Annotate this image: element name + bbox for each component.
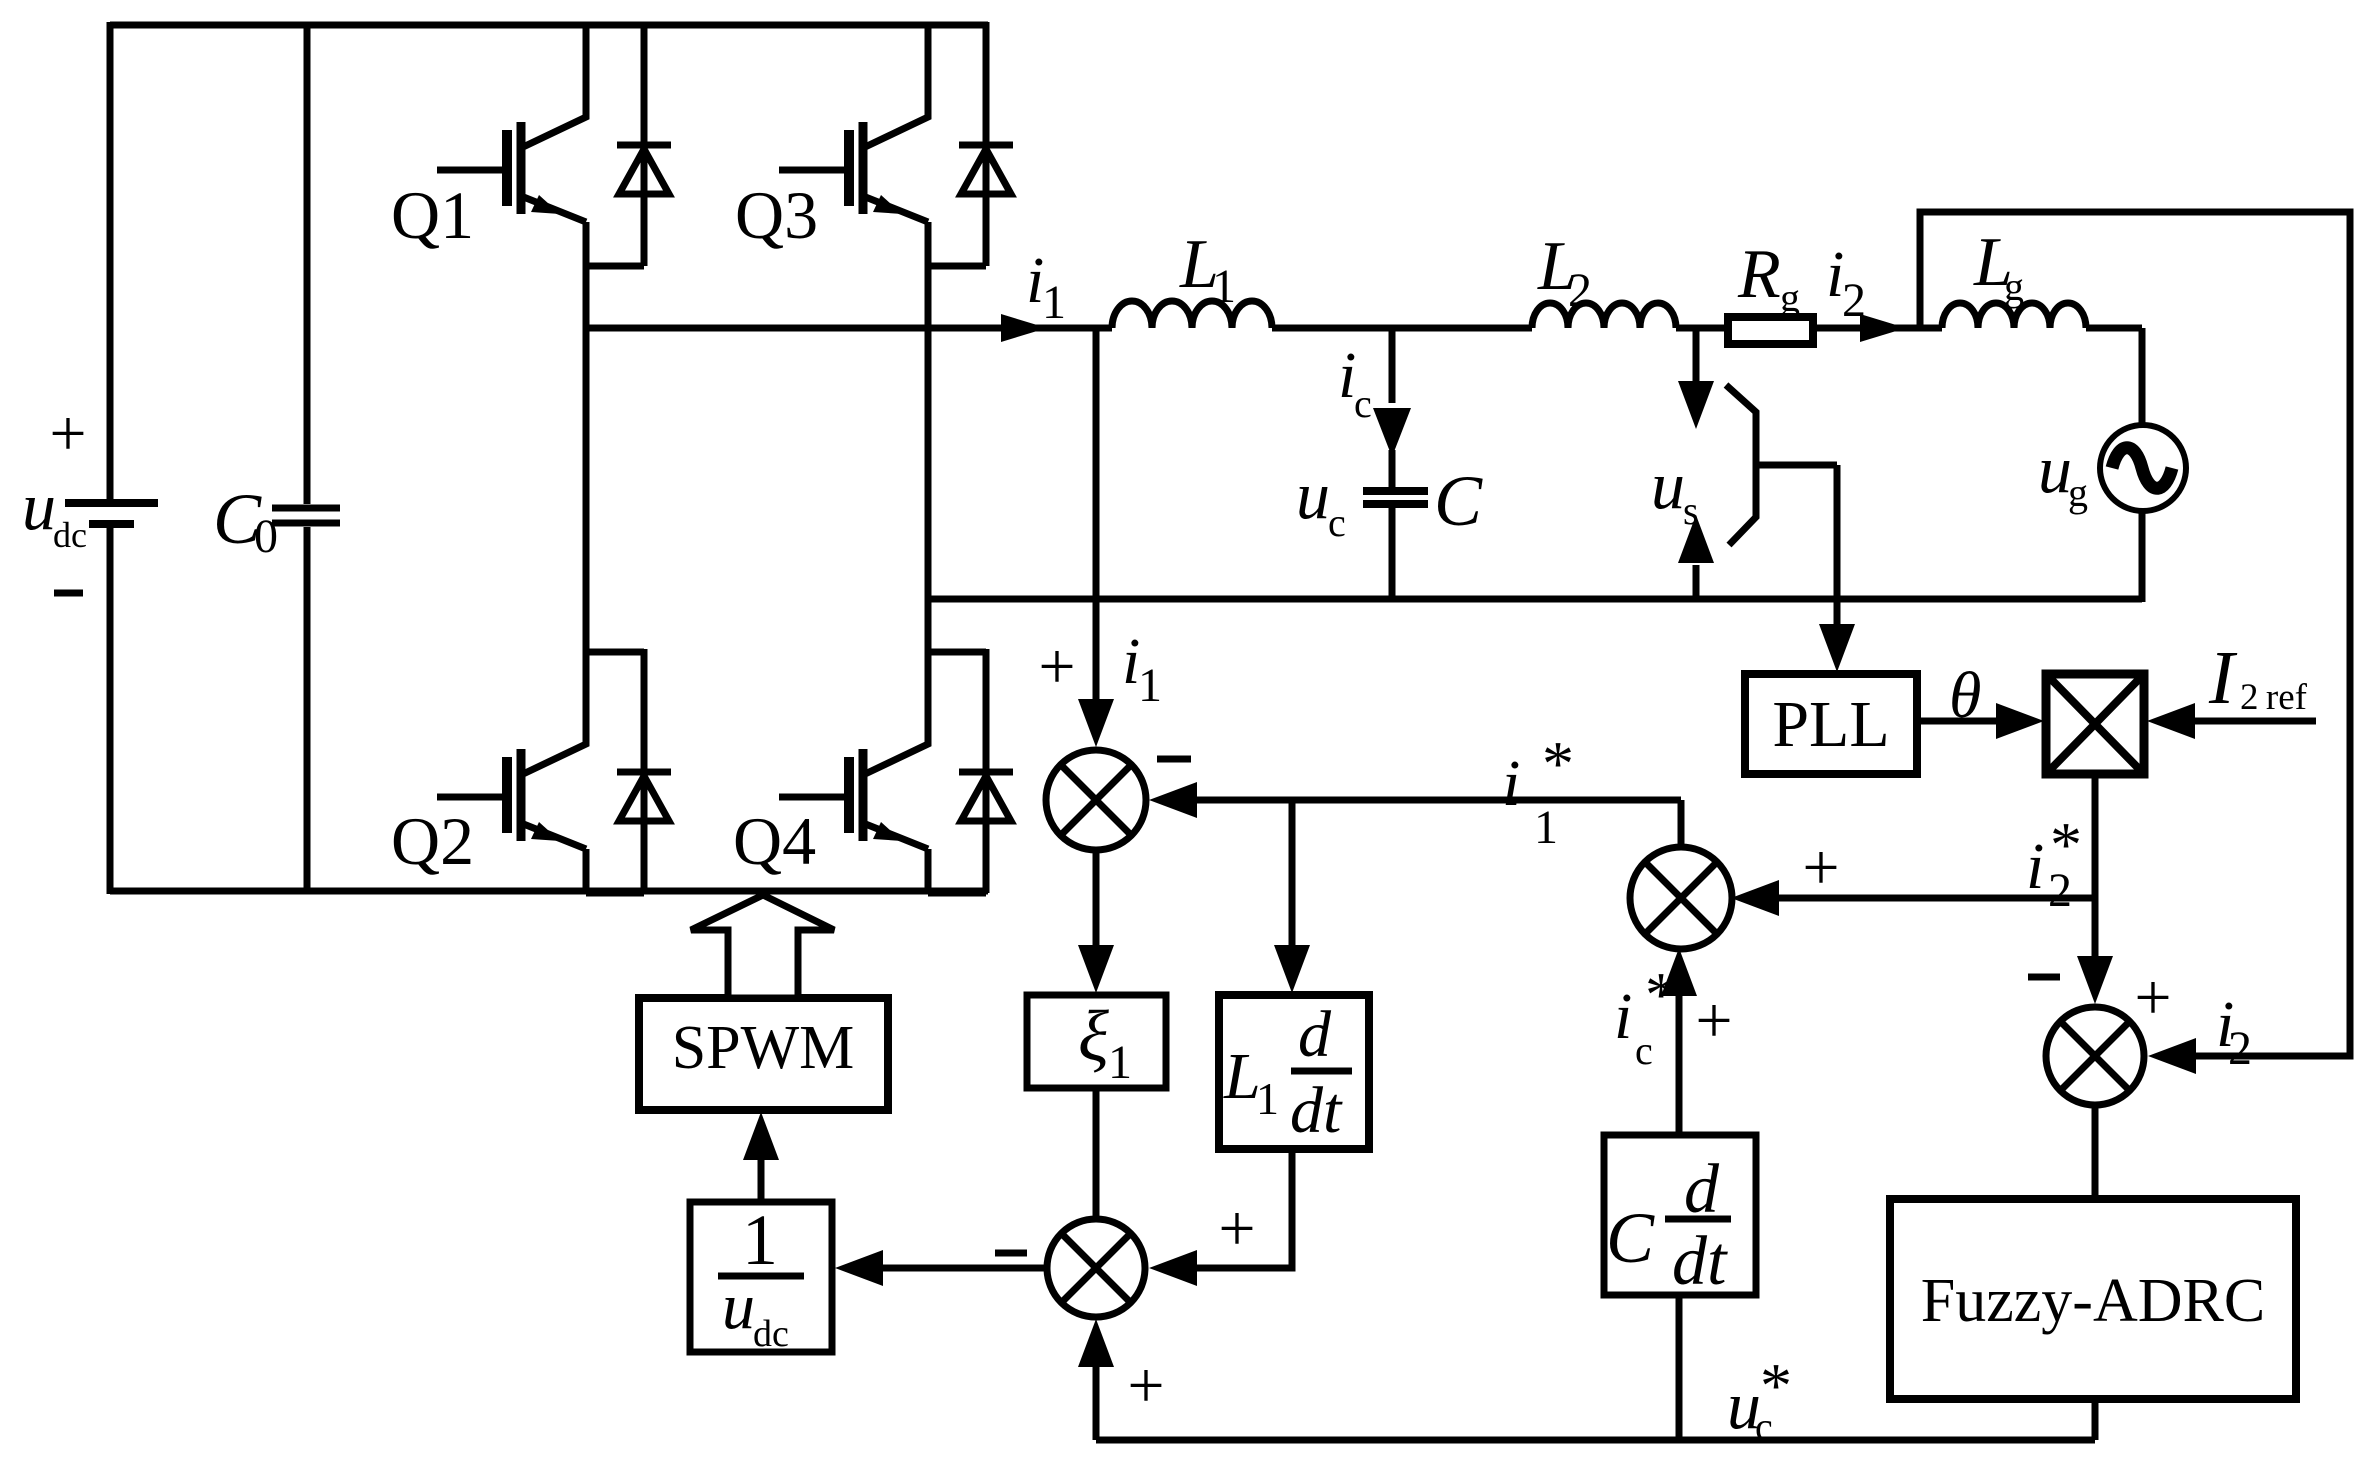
- svg-text:i: i: [1502, 747, 1520, 820]
- label Lg: [1973, 224, 2024, 309]
- wire multiplier output down: [2092, 774, 2099, 958]
- label Rg: [1737, 236, 1800, 320]
- arrow into summer 3 from right: [1149, 1250, 1197, 1286]
- inductor Lg: [1942, 303, 2086, 328]
- svg-text:1: 1: [1108, 1036, 1132, 1089]
- svg-text:PLL: PLL: [1772, 688, 1889, 761]
- svg-text:1: 1: [1212, 260, 1236, 313]
- svg-text:1: 1: [1138, 659, 1162, 712]
- wire summer 3 to 1/udc: [883, 1265, 1047, 1272]
- wire Lg to source: [2086, 328, 2142, 602]
- summer 3 (circle with X): [1047, 1219, 1145, 1317]
- transistor Q3 with antiparallel diode: [779, 22, 1013, 266]
- label i1 (measured): [1122, 625, 1162, 712]
- wire 1/udc to SPWM: [758, 1160, 765, 1202]
- arrow theta into multiplier: [1996, 703, 2044, 739]
- svg-text:2: 2: [1568, 264, 1592, 317]
- arrow i1 on output wire: [1001, 314, 1047, 342]
- block 1/udc: [690, 1202, 832, 1352]
- wire bottom DC rail: [110, 888, 988, 895]
- svg-text:u: u: [22, 468, 56, 544]
- svg-text:d: d: [1298, 998, 1332, 1071]
- capacitor C0: [272, 22, 340, 894]
- svg-text:dt: dt: [1672, 1223, 1728, 1300]
- label u_c: [1296, 457, 1346, 545]
- wire bridge leg 1 mid: [583, 266, 590, 651]
- block PLL: [1745, 674, 1917, 774]
- battery u_dc: [65, 503, 158, 524]
- resistor Rg: [1728, 317, 1813, 344]
- node capacitor branch: [1389, 330, 1396, 403]
- svg-text:θ: θ: [1949, 659, 1981, 732]
- label i2 feedback: [2216, 988, 2252, 1075]
- wire C d/dt down to bottom bus: [1676, 1295, 1683, 1440]
- svg-text:C: C: [1606, 1198, 1655, 1278]
- label i_c: [1338, 339, 1372, 426]
- arrow i_c down: [1373, 408, 1411, 457]
- arrow i_c* into summer 2: [1661, 948, 1697, 996]
- arrow into xi1: [1078, 945, 1114, 993]
- svg-text:dc: dc: [53, 515, 87, 555]
- label u_dc: [22, 468, 87, 555]
- label i2*: [2026, 809, 2082, 917]
- svg-text:1: 1: [742, 1200, 778, 1280]
- svg-text:+: +: [1038, 630, 1075, 703]
- label C d/dt: [1606, 1151, 1728, 1300]
- label L2: [1537, 228, 1592, 317]
- summer 1 (circle with X): [1046, 750, 1146, 850]
- svg-text:2 ref: 2 ref: [2240, 677, 2308, 718]
- svg-text:*: *: [1645, 959, 1677, 1030]
- svg-text:Q1: Q1: [391, 177, 474, 253]
- arrow into SPWM: [743, 1112, 779, 1160]
- arrow i1 into summer 1: [1093, 604, 1100, 700]
- label C0: [213, 479, 278, 563]
- source u_g (AC): [2100, 425, 2186, 511]
- svg-text:1: 1: [1256, 1073, 1279, 1124]
- wire bridge leg 2 mid: [925, 266, 932, 651]
- summer 2 (circle with X): [1630, 847, 1732, 949]
- svg-text:1: 1: [1534, 801, 1558, 854]
- wire u_s branch with sense arrows: [1678, 330, 1714, 599]
- svg-text:*: *: [1760, 1350, 1792, 1421]
- wire C d/dt up to summer 2: [1676, 996, 1683, 1135]
- svg-text:I: I: [2208, 636, 2238, 720]
- arrow i1* into summer 1: [1149, 782, 1197, 818]
- summer 4 (circle with X): [2046, 1007, 2144, 1105]
- svg-text:1: 1: [1042, 276, 1066, 329]
- svg-text:dt: dt: [1290, 1074, 1343, 1147]
- wire xi1 to summer 3: [1093, 1088, 1100, 1219]
- inductor L1: [1112, 301, 1272, 328]
- wire theta PLL to multiplier: [1917, 718, 1998, 725]
- svg-text:s: s: [1683, 488, 1699, 533]
- label u_c*: [1727, 1350, 1792, 1449]
- wire inverter output (node A): [586, 325, 1112, 332]
- label u_s: [1651, 447, 1699, 533]
- label u_g: [2038, 431, 2088, 515]
- wire i1* to summer 1: [1197, 797, 1681, 804]
- svg-text:0: 0: [254, 510, 278, 563]
- svg-text:g: g: [2068, 470, 2088, 515]
- label - (summer 4): [2028, 974, 2060, 981]
- svg-text:+: +: [1127, 1349, 1164, 1422]
- label I_2ref: [2208, 636, 2308, 720]
- hollow arrow SPWM to bridge: [691, 895, 834, 998]
- svg-text:c: c: [1328, 500, 1346, 545]
- voltage probe hook u_s: [1726, 385, 1756, 545]
- svg-text:+: +: [1218, 1192, 1255, 1265]
- label i2 (grid current): [1826, 238, 1866, 327]
- svg-text:+: +: [1695, 984, 1732, 1057]
- wire i2* to summer 2: [1779, 895, 2095, 902]
- label - (summer 3): [995, 1250, 1027, 1257]
- svg-text:+: +: [49, 397, 86, 470]
- svg-text:R: R: [1737, 236, 1781, 313]
- arrow I_2ref: [2147, 703, 2195, 739]
- wire I_2ref into multiplier: [2195, 718, 2316, 725]
- wire L2 to Rg: [1676, 325, 1728, 332]
- svg-text:2: 2: [1842, 274, 1866, 327]
- svg-text:Q4: Q4: [733, 803, 816, 879]
- capacitor C (filter): [1363, 450, 1428, 602]
- svg-text:ξ: ξ: [1078, 996, 1109, 1076]
- wire probe to PLL: [1756, 465, 1837, 628]
- svg-text:C: C: [1434, 461, 1483, 541]
- wire bottom bus up to summer 3: [1093, 1367, 1100, 1440]
- block L1 d/dt: [1219, 995, 1369, 1149]
- block Fuzzy-ADRC: [1890, 1199, 2296, 1399]
- arrow u_c* into summer 3: [1078, 1319, 1114, 1367]
- label L1 d/dt: [1223, 998, 1343, 1147]
- transistor Q4 with antiparallel diode: [779, 649, 1013, 893]
- svg-text:u: u: [1651, 447, 1685, 523]
- wire i1 sense tap: [1093, 328, 1100, 604]
- svg-text:SPWM: SPWM: [672, 1014, 855, 1082]
- arrow i2 into summer 4: [2148, 1038, 2196, 1074]
- block SPWM: [639, 998, 888, 1110]
- arrow into 1/udc: [835, 1250, 883, 1286]
- arrow i2* into summer 2: [1731, 880, 1779, 916]
- wire summer 4 to Fuzzy-ADRC: [2092, 1105, 2099, 1199]
- label i1*: [1502, 728, 1574, 854]
- svg-text:c: c: [1635, 1028, 1653, 1073]
- wire summer 1 to xi1: [1093, 850, 1100, 945]
- svg-text:u: u: [722, 1270, 755, 1343]
- transistor Q1 with antiparallel diode: [437, 22, 671, 266]
- svg-text:c: c: [1354, 381, 1372, 426]
- svg-text:g: g: [1780, 275, 1800, 320]
- label - (u_dc negative): [54, 590, 83, 597]
- svg-text:Fuzzy-ADRC: Fuzzy-ADRC: [1921, 1267, 2265, 1335]
- wire bottom bus u_c*: [1096, 1437, 2095, 1444]
- wire top DC rail: [110, 22, 988, 29]
- block xi1: [1027, 995, 1166, 1088]
- svg-text:*: *: [2050, 809, 2082, 880]
- wire L1 d/dt to summer 3: [1197, 1149, 1292, 1268]
- svg-text:i: i: [1614, 980, 1632, 1053]
- wire i2 feedback loop: [1920, 212, 2350, 1056]
- svg-text:+: +: [1802, 831, 1839, 904]
- arrow into PLL: [1819, 624, 1855, 672]
- wire return (node B): [928, 596, 2142, 603]
- svg-text:u: u: [1296, 457, 1330, 533]
- wire Rg to grid node: [1813, 325, 1942, 332]
- wire L1 to L2: [1272, 325, 1532, 332]
- multiplier block (box with X): [2046, 674, 2144, 774]
- arrow i2 on wire: [1860, 314, 1906, 342]
- svg-text:i: i: [2026, 830, 2044, 903]
- label i_c*: [1614, 959, 1677, 1073]
- svg-text:u: u: [2038, 431, 2072, 507]
- arrow i2* into summer 4: [2077, 956, 2113, 1004]
- arrow into L1 d/dt: [1274, 945, 1310, 993]
- svg-text:dc: dc: [753, 1313, 789, 1355]
- wire Fuzzy-ADRC to bottom bus: [2092, 1399, 2099, 1440]
- label L1: [1179, 226, 1236, 313]
- svg-text:g: g: [2004, 264, 2024, 309]
- svg-text:*: *: [1542, 728, 1574, 799]
- block C d/dt: [1604, 1135, 1756, 1295]
- transistor Q2 with antiparallel diode: [437, 649, 671, 893]
- label xi1: [1078, 996, 1132, 1089]
- label - (summer 1): [1157, 756, 1191, 763]
- label i1 (output current): [1026, 244, 1066, 329]
- wire branch to L1 d/dt: [1289, 800, 1296, 945]
- label 1/udc: [722, 1200, 789, 1355]
- wire summer 2 up to i1* line: [1678, 800, 1685, 847]
- inductor L2: [1532, 303, 1676, 328]
- wire left DC rail: [107, 22, 114, 894]
- svg-text:+: +: [2134, 961, 2171, 1034]
- svg-text:2: 2: [2228, 1022, 2252, 1075]
- svg-text:Q2: Q2: [391, 803, 474, 879]
- svg-text:Q3: Q3: [735, 177, 818, 253]
